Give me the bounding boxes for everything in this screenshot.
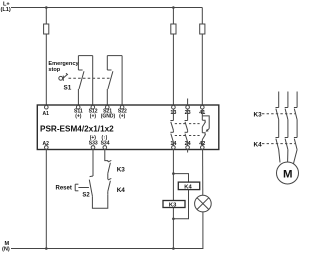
wire phase mid segments xyxy=(279,120,297,138)
node junction 14 wire / rail xyxy=(172,247,175,250)
node junction K4 branch bottom xyxy=(172,218,175,221)
wire S33 drop xyxy=(92,149,94,176)
wire 42 drop to lamp xyxy=(202,149,204,195)
terminal A1 xyxy=(43,105,50,116)
svg-text:S33: S33 xyxy=(89,140,98,146)
svg-text:S34: S34 xyxy=(101,140,110,146)
wire S34 drop with jog xyxy=(105,149,108,161)
contact K4 feedback (NC) xyxy=(108,178,112,194)
wire mechanical link row 2 (dashed) xyxy=(175,135,201,137)
svg-text:(GND): (GND) xyxy=(101,114,116,120)
label Emergency stop xyxy=(48,61,79,73)
wire 13 drop xyxy=(172,8,174,106)
safety relay U1 PSR-ESM4 body xyxy=(37,105,219,150)
terminal S22 (+) xyxy=(118,105,127,119)
fuse F2 xyxy=(171,24,176,34)
svg-text:stop: stop xyxy=(48,67,60,73)
wire phase line 3 xyxy=(296,92,298,108)
wire mechanical link S1 (dashed) xyxy=(69,77,112,79)
terminal S21 (GND) xyxy=(101,105,116,119)
wire mechanical link K3 (dashed) xyxy=(262,113,295,115)
fuse F3 xyxy=(200,24,205,34)
svg-text:M: M xyxy=(283,168,293,180)
wire A1 drop xyxy=(45,8,47,106)
svg-text:(+): (+) xyxy=(119,114,126,120)
fuse F1 xyxy=(44,24,49,34)
node M (N) return label xyxy=(2,241,10,252)
svg-text:(+): (+) xyxy=(90,114,97,120)
svg-text:(L1): (L1) xyxy=(1,7,11,13)
relay contact 23-24 (two series NO) xyxy=(185,109,188,146)
svg-text:K4: K4 xyxy=(254,141,263,148)
svg-text:Emergency: Emergency xyxy=(48,61,79,67)
svg-text:S2: S2 xyxy=(82,193,90,199)
emergency stop S1 actuator (mushroom button) xyxy=(59,73,68,81)
svg-text:K3: K3 xyxy=(117,166,126,173)
lamp H1 (indicator) xyxy=(195,195,212,212)
contactor K4 main contacts (3-pole NO) xyxy=(276,138,298,150)
wire bottom return rail M xyxy=(11,248,203,250)
svg-text:Reset: Reset xyxy=(56,185,72,191)
relay contact 13-14 (two series NO) xyxy=(170,109,173,146)
wire K4 branch return xyxy=(173,190,188,219)
terminal 41 xyxy=(199,105,205,116)
wire phase line 2 xyxy=(287,92,289,108)
wire stub below terminal 24 xyxy=(187,150,189,153)
emergency stop S1 channel 1 (S11-S12) xyxy=(78,56,92,105)
relay actuation arrow xyxy=(202,116,209,132)
svg-text:PSR-ESM4/2x1/1x2: PSR-ESM4/2x1/1x2 xyxy=(40,125,114,134)
wire mechanical link K4 (dashed) xyxy=(262,143,295,145)
relay contact 41-42 (two series NC) xyxy=(202,109,205,146)
svg-text:(+): (+) xyxy=(75,114,82,120)
wire phase line 1 xyxy=(278,92,280,108)
terminal 13 xyxy=(170,105,176,116)
terminal S33 (+) xyxy=(89,135,98,149)
terminal A2 xyxy=(43,141,50,149)
svg-text:K4: K4 xyxy=(184,184,192,190)
svg-text:A1: A1 xyxy=(43,111,50,117)
reset button S2 (NO pushbutton) xyxy=(75,176,93,196)
node junction 13 wire / rail xyxy=(172,6,175,9)
svg-text:K4: K4 xyxy=(117,187,126,194)
node junction A2 wire / rail xyxy=(45,247,48,250)
wire phase drops to motor xyxy=(279,150,297,164)
svg-text:K3: K3 xyxy=(254,112,263,119)
wire lamp to rail xyxy=(202,212,204,249)
contact K3 feedback (NC) xyxy=(108,160,112,179)
terminal 42 xyxy=(199,141,205,149)
node junction A1 wire / rail xyxy=(45,6,48,9)
coil K3 xyxy=(163,201,185,209)
wire 41 drop xyxy=(201,8,203,106)
terminal 24 xyxy=(185,141,191,149)
svg-text:K3: K3 xyxy=(169,203,177,209)
wire stub above terminal 23 xyxy=(187,99,189,106)
terminal 14 xyxy=(170,141,176,149)
wire top supply rail L+ xyxy=(11,7,202,9)
terminal S11 (+) xyxy=(74,105,83,119)
wire A2 to M rail xyxy=(45,149,47,248)
wire K4 branch xyxy=(173,174,188,183)
wire reset loop bottom U xyxy=(92,194,107,208)
emergency stop S1 channel 2 (S21-S22) xyxy=(107,56,122,105)
terminal S12 (+) xyxy=(89,105,98,119)
contactor K3 main contacts (3-pole NO) xyxy=(276,108,298,120)
node L+ (L1) supply label xyxy=(1,2,11,14)
wire 14 drop to rail xyxy=(172,149,174,248)
svg-text:(N): (N) xyxy=(2,246,10,252)
svg-text:A2: A2 xyxy=(43,141,50,147)
terminal 23 xyxy=(185,105,191,116)
wire mechanical link row 1 (dashed) xyxy=(175,123,201,125)
coil K4 xyxy=(178,182,199,190)
terminal S34 (up arrow) xyxy=(101,135,110,149)
motor M1 xyxy=(277,162,299,184)
node junction K4 branch top xyxy=(172,172,175,175)
svg-text:S1: S1 xyxy=(64,85,72,92)
